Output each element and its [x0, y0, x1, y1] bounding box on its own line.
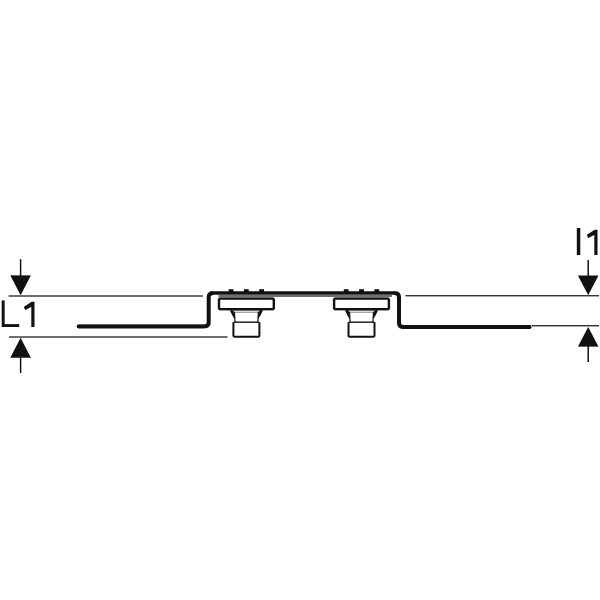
plate right bend [395, 293, 406, 327]
label L1 [2, 300, 35, 327]
right fitting neck walls [350, 312, 374, 322]
left fitting neck walls [234, 312, 258, 322]
left fitting shoulders [230, 310, 263, 319]
label l1 [577, 228, 598, 255]
right fitting mid joint line [349, 321, 375, 323]
dimension L1 upper arrow [10, 259, 31, 295]
right wing plate segment [406, 325, 530, 329]
dimension l1 upper arrow [578, 260, 599, 295]
dimension l1 upper extension line [406, 295, 600, 297]
dimension L1 lower extension line [9, 336, 228, 338]
left wing plate segment [79, 324, 203, 328]
left fitting lower tube [233, 322, 259, 337]
plate back edge thin line [219, 295, 393, 297]
right fitting flange [334, 299, 389, 310]
dimension l1 lower arrow [578, 327, 599, 362]
dimension l1 lower extension line [532, 325, 599, 327]
dimension L1 upper extension line [9, 295, 204, 297]
weld ticks on plate top [229, 289, 380, 291]
plate left bend [201, 293, 213, 326]
right fitting shoulders [345, 310, 378, 319]
right fitting gasket lines [349, 311, 375, 313]
left fitting gasket lines [234, 311, 260, 313]
dimension L1 lower arrow [10, 338, 31, 373]
left fitting flange [219, 299, 274, 310]
left fitting mid joint line [234, 321, 260, 323]
right fitting lower tube [349, 322, 375, 337]
plate raised section top [210, 291, 395, 295]
